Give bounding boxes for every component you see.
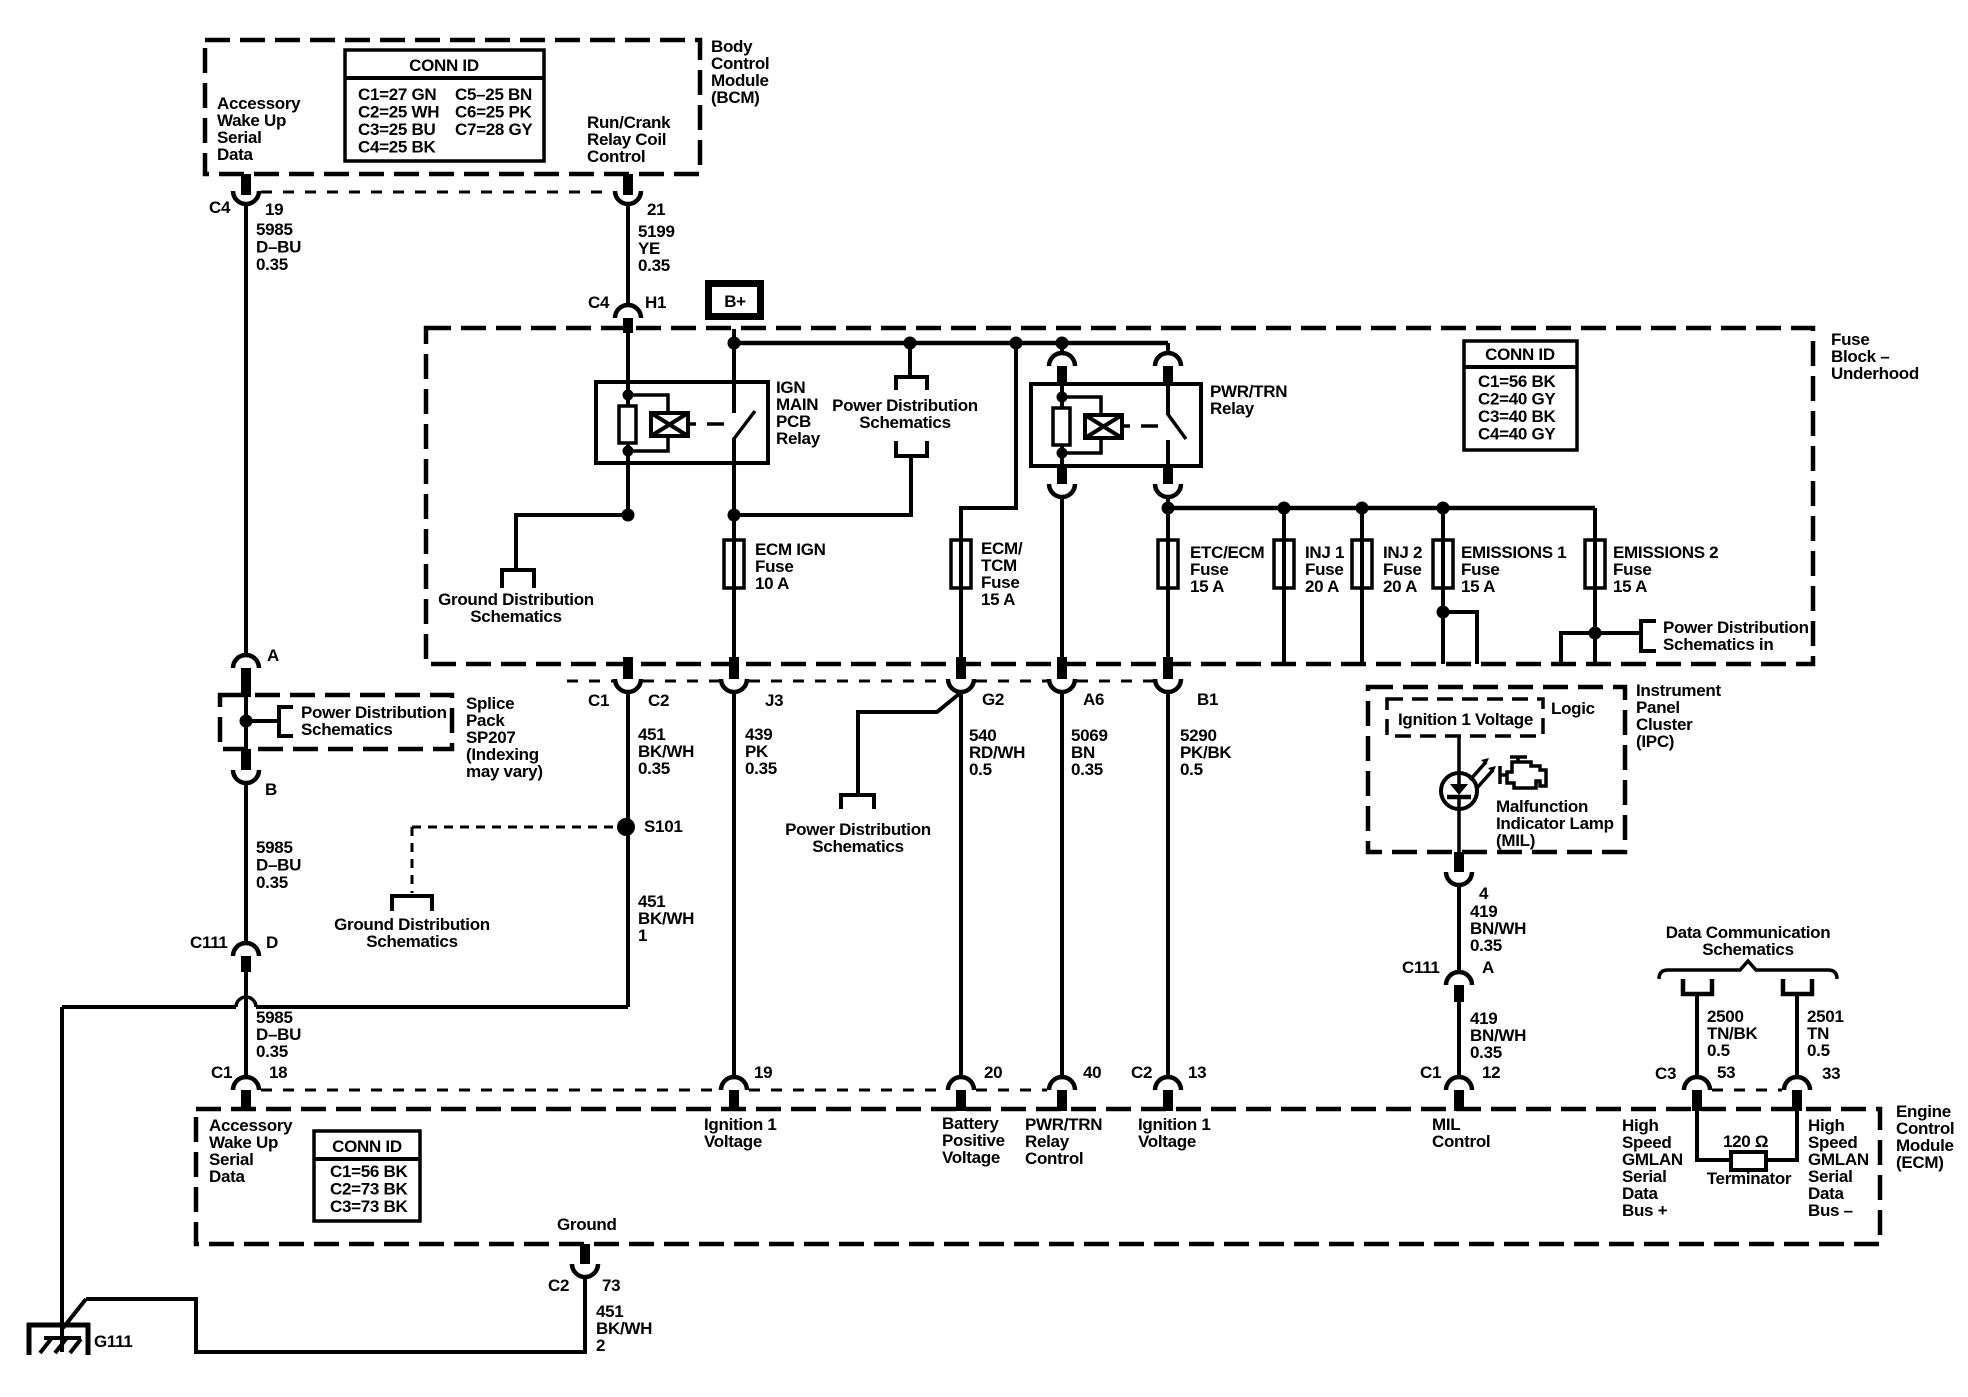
wire power distribution to switch output [734, 456, 911, 515]
svg-text:0.35: 0.35 [745, 759, 777, 778]
junction dot switch output [728, 509, 741, 522]
svg-text:C111: C111 [1402, 958, 1440, 977]
MIL indicator light arrows [1470, 762, 1486, 780]
svg-text:C1=56 BK: C1=56 BK [1478, 372, 1556, 391]
fuse F7 EMISSIONS 2 Fuse 15 A [1593, 508, 1597, 664]
PWR/TRN coil pin connector top [1060, 343, 1064, 355]
wire 5985 D-BU from B to C111 D [244, 783, 248, 943]
PWR/TRN relay switch output wire [1166, 440, 1170, 466]
svg-text:CONN ID: CONN ID [1485, 345, 1555, 364]
wire 451 BK/WH 2 from ECM to G111 [86, 1277, 585, 1352]
IGN relay coil wire through [626, 384, 630, 463]
junction dot bus to PWR/TRN relay coil [1056, 337, 1069, 350]
connector C1/C2 at fuse block bottom [623, 657, 633, 679]
svg-text:may vary): may vary) [466, 762, 543, 781]
PWR/TRN switch bottom pin connector [1163, 466, 1173, 484]
svg-text:Underhood: Underhood [1831, 364, 1919, 383]
wire 5069 BN from A6 to ECM pin 40 [1060, 692, 1064, 1078]
svg-text:B: B [265, 780, 277, 799]
svg-text:40: 40 [1083, 1063, 1101, 1082]
svg-text:Voltage: Voltage [942, 1148, 1000, 1167]
svg-text:15 A: 15 A [1461, 577, 1495, 596]
svg-text:10 A: 10 A [755, 574, 789, 593]
connector B below splice pack [241, 749, 251, 770]
svg-text:C6=25 PK: C6=25 PK [455, 103, 533, 122]
junction dot INJ 1 fuse feed [1278, 502, 1291, 515]
splice pack SP207 dashed box [220, 695, 452, 749]
svg-text:0.5: 0.5 [1807, 1041, 1830, 1060]
wire to power distribution pointer (splice pack) [246, 719, 279, 723]
connector B1 at fuse block bottom [1163, 657, 1173, 679]
wire 451 BK/WH 1 from S101 to G111 ground [256, 1005, 628, 1009]
svg-text:A: A [267, 646, 279, 665]
Fuse Block - Underhood module box [426, 328, 1813, 664]
wire 5290 PK/BK from B1 to ECM C2/13 [1166, 692, 1170, 1078]
B+ bus wire across fuse block [733, 341, 1168, 346]
svg-text:19: 19 [265, 200, 283, 219]
svg-text:1: 1 [638, 926, 647, 945]
ground G111 symbol [27, 1323, 90, 1328]
svg-text:D–BU: D–BU [256, 856, 301, 875]
connector below IPC for MIL wire [1454, 852, 1464, 872]
svg-text:D: D [266, 933, 278, 952]
GMLAN bus - pointer bracket [1783, 979, 1812, 994]
svg-text:H1: H1 [645, 293, 666, 312]
svg-text:5985: 5985 [256, 838, 293, 857]
EMISSIONS 2 output branch wire to pointer [1595, 631, 1641, 635]
fuse F2 ECM/TCM Fuse 15 A [959, 508, 963, 657]
svg-text:120 Ω: 120 Ω [1723, 1132, 1768, 1151]
svg-text:0.35: 0.35 [256, 873, 288, 892]
PWR/TRN relay coil bottom node [1057, 448, 1068, 459]
terminator resistor 120 ohm inside ECM [1697, 1111, 1731, 1160]
svg-text:C2=40 GY: C2=40 GY [1478, 390, 1556, 409]
wire ignition 1 voltage to MIL lamp [1457, 736, 1461, 852]
svg-text:15 A: 15 A [981, 590, 1015, 609]
junction dot splice pack [240, 715, 253, 728]
power distribution pointer bracket (540 branch) [841, 795, 874, 809]
svg-text:Schematics: Schematics [812, 837, 904, 856]
connector G2 at fuse block bottom [956, 657, 966, 679]
crossover hop of ground wire under serial data wire [236, 997, 256, 1007]
junction dot EMISSIONS 1 output split [1437, 606, 1450, 619]
junction dot INJ 2 fuse feed [1356, 502, 1369, 515]
svg-text:0.35: 0.35 [1071, 760, 1103, 779]
svg-text:Schematics: Schematics [366, 932, 458, 951]
relay U2 PWR/TRN Relay box [1031, 384, 1201, 466]
svg-text:(MIL): (MIL) [1496, 831, 1535, 850]
fuse block CONN ID table [1464, 341, 1577, 450]
IGN relay solenoid box with X [651, 413, 688, 436]
svg-text:Schematics: Schematics [470, 607, 562, 626]
svg-text:Logic: Logic [1551, 699, 1595, 718]
svg-text:D–BU: D–BU [256, 238, 301, 257]
svg-text:Ground: Ground [557, 1215, 617, 1234]
wire to ground distribution schematics [516, 515, 628, 568]
wire power distribution schematics up-link [908, 343, 912, 376]
ground distribution pointer bracket [502, 570, 534, 588]
svg-text:Bus –: Bus – [1808, 1201, 1853, 1220]
svg-text:20 A: 20 A [1383, 577, 1417, 596]
fuse F6 EMISSIONS 1 Fuse 15 A [1441, 508, 1445, 664]
IGN relay switch wire from bus [732, 343, 736, 413]
svg-text:5985: 5985 [256, 220, 293, 239]
junction dot fused bus [1162, 502, 1175, 515]
fuse block bottom connector fine-dashed line [567, 680, 613, 683]
wire 419 BN/WH from IPC to C111 A [1457, 885, 1461, 972]
wire inside splice pack [244, 695, 248, 749]
wire 540 RD/WH branch to power distribution [858, 694, 959, 794]
connector C2 pin 73 at ECM bottom [580, 1244, 590, 1264]
svg-text:12: 12 [1482, 1063, 1500, 1082]
IGN relay coil bottom node [623, 446, 634, 457]
svg-text:C2=25 WH: C2=25 WH [358, 103, 439, 122]
MIL check engine icon [1507, 762, 1546, 788]
svg-text:15 A: 15 A [1190, 577, 1224, 596]
BCM module box (Body Control Module) [205, 40, 700, 174]
svg-text:G2: G2 [982, 690, 1004, 709]
svg-text:B+: B+ [724, 292, 746, 311]
PWR/TRN relay coil resistor [1053, 408, 1070, 445]
svg-text:4: 4 [1479, 884, 1489, 903]
svg-text:C1=56 BK: C1=56 BK [330, 1162, 408, 1181]
svg-text:Schematics: Schematics [301, 720, 393, 739]
EMISSIONS 2 output branch wire left [1561, 633, 1595, 664]
wire 5199 YE from BCM pin 21 down [626, 203, 630, 305]
connector J3 at fuse block bottom [729, 657, 739, 679]
EMISSIONS 1 output branch wire [1443, 612, 1477, 664]
svg-text:C4: C4 [209, 198, 231, 217]
IPC module box (Instrument Panel Cluster) [1368, 687, 1625, 852]
svg-text:C2: C2 [548, 1276, 569, 1295]
svg-text:C7=28 GY: C7=28 GY [455, 120, 533, 139]
svg-text:18: 18 [269, 1063, 287, 1082]
PWR/TRN switch pin connector top [1166, 343, 1170, 355]
svg-text:C5–25 BN: C5–25 BN [455, 85, 532, 104]
svg-text:C4=25 BK: C4=25 BK [358, 138, 436, 157]
svg-text:0.35: 0.35 [638, 256, 670, 275]
PWR/TRN relay switch wire [1166, 384, 1170, 415]
wire 540 RD/WH from G2 to ECM pin 20 [959, 692, 963, 1078]
svg-text:A: A [1482, 958, 1494, 977]
svg-text:0.5: 0.5 [1707, 1041, 1730, 1060]
svg-text:C3=73 BK: C3=73 BK [330, 1197, 408, 1216]
ECM top connector fine-dashed line [261, 1089, 719, 1092]
svg-text:Voltage: Voltage [704, 1132, 762, 1151]
svg-text:C3=40 BK: C3=40 BK [1478, 407, 1556, 426]
IGN relay switch arm [733, 411, 755, 440]
svg-text:C1: C1 [1420, 1063, 1441, 1082]
connector C4 pin 19 at BCM (stub and arc) [241, 174, 251, 195]
wire feed to ECM/TCM fuse [961, 343, 1016, 540]
svg-text:G111: G111 [94, 1332, 133, 1351]
junction dot EMISSIONS 1 fuse feed [1437, 502, 1450, 515]
svg-text:2: 2 [596, 1336, 605, 1355]
svg-text:0.35: 0.35 [256, 255, 288, 274]
connector C4 pin 21 at BCM (stub and arc) [623, 174, 633, 195]
IGN relay coil loop wire [628, 395, 668, 414]
junction dot bus to power distribution [904, 337, 917, 350]
svg-text:0.5: 0.5 [969, 760, 992, 779]
dashed wire from S101 to ground distribution [412, 826, 613, 829]
svg-text:C1=27 GN: C1=27 GN [358, 85, 436, 104]
svg-text:0.35: 0.35 [638, 759, 670, 778]
ECM CONN ID table [314, 1131, 420, 1221]
PWR/TRN relay coil wire through [1060, 386, 1064, 466]
svg-text:15 A: 15 A [1613, 577, 1647, 596]
svg-text:Data: Data [209, 1167, 245, 1186]
svg-text:C3: C3 [1655, 1064, 1676, 1083]
BCM CONN ID table [345, 50, 544, 161]
svg-text:Relay: Relay [1210, 399, 1255, 418]
svg-text:A6: A6 [1083, 690, 1104, 709]
svg-text:73: 73 [602, 1276, 620, 1295]
wire from H1 into IGN MAIN relay coil [626, 331, 630, 384]
ECM module box (Engine Control Module) [196, 1109, 1880, 1244]
svg-text:C1: C1 [211, 1063, 232, 1082]
svg-text:CONN ID: CONN ID [332, 1137, 402, 1156]
ground distribution pointer bracket (S101) [392, 896, 432, 911]
IGN relay switch output wire [732, 438, 736, 463]
svg-text:Control: Control [1432, 1132, 1490, 1151]
svg-text:0.5: 0.5 [1180, 760, 1203, 779]
svg-text:Control: Control [1025, 1149, 1083, 1168]
svg-text:C2=73 BK: C2=73 BK [330, 1180, 408, 1199]
svg-text:Voltage: Voltage [1138, 1132, 1196, 1151]
PWR/TRN relay switch arm [1167, 413, 1186, 439]
svg-text:B1: B1 [1197, 690, 1218, 709]
svg-text:53: 53 [1717, 1063, 1735, 1082]
IGN relay mechanical link dashes [688, 422, 696, 426]
PWR/TRN relay coil top node [1057, 392, 1068, 403]
wire 2501 TN GMLAN bus - [1795, 994, 1799, 1078]
fuse F4 INJ 1 Fuse 20 A [1282, 508, 1286, 664]
wire 5985 D-BU from C111 to ECM C1/18 [244, 972, 248, 1078]
svg-text:21: 21 [647, 200, 665, 219]
wire 419 BN/WH from C111 to ECM C1/12 [1457, 1002, 1461, 1078]
IGN relay coil top node [623, 390, 634, 401]
wire from B+ down to bus [732, 329, 736, 343]
svg-text:Bus +: Bus + [1622, 1201, 1668, 1220]
fuse F3 ETC/ECM Fuse 15 A [1166, 508, 1170, 657]
wire switch output to ECM IGN fuse and power distribution [732, 438, 736, 515]
svg-text:J3: J3 [765, 691, 783, 710]
svg-text:Ignition 1 Voltage: Ignition 1 Voltage [1398, 710, 1533, 729]
svg-text:C4: C4 [588, 293, 610, 312]
wire 5985 D-BU from BCM C4/19 down [244, 203, 248, 655]
svg-text:0.35: 0.35 [256, 1042, 288, 1061]
junction dot bus to ECM/TCM fuse feed [1010, 337, 1023, 350]
brace for data communication schematics [1659, 961, 1837, 979]
power distribution pointer bracket bottom [896, 441, 927, 456]
svg-text:S101: S101 [644, 817, 683, 836]
fuse F1 ECM IGN Fuse 10 A [732, 515, 736, 657]
svg-text:33: 33 [1822, 1064, 1840, 1083]
svg-text:(ECM): (ECM) [1896, 1153, 1944, 1172]
svg-text:Schematics: Schematics [859, 413, 951, 432]
svg-text:Schematics in: Schematics in [1663, 635, 1773, 654]
svg-text:20: 20 [984, 1063, 1002, 1082]
svg-text:Control: Control [587, 147, 645, 166]
svg-text:C3=25 BU: C3=25 BU [358, 120, 435, 139]
wire IGN relay coil to ground distribution junction [626, 463, 630, 515]
IGN relay coil resistor [619, 406, 636, 443]
fused output bus wire [1168, 506, 1595, 511]
wire 2500 TN/BK GMLAN bus + [1695, 994, 1699, 1078]
svg-text:C2: C2 [648, 691, 669, 710]
Ignition 1 Voltage logic box [1387, 699, 1543, 736]
svg-text:C2: C2 [1131, 1063, 1152, 1082]
power distribution pointer bracket (splice pack) [279, 707, 293, 736]
power distribution pointer bracket top [896, 377, 927, 390]
svg-text:0.35: 0.35 [1470, 1043, 1502, 1062]
connector A6 at fuse block bottom [1057, 657, 1067, 679]
PWR/TRN relay coil loop wire [1062, 397, 1101, 416]
svg-text:13: 13 [1188, 1063, 1206, 1082]
svg-text:(BCM): (BCM) [711, 88, 760, 107]
svg-text:C111: C111 [190, 933, 228, 952]
svg-text:19: 19 [754, 1063, 772, 1082]
svg-text:Relay: Relay [776, 429, 821, 448]
wire 451 BK/WH from C2 to S101 [626, 692, 630, 1007]
GMLAN bus + pointer bracket [1683, 979, 1712, 994]
svg-text:0.35: 0.35 [1470, 936, 1502, 955]
junction dot EMISSIONS 2 output split [1589, 627, 1602, 640]
wire switch output to fuse bus [1166, 497, 1170, 540]
wire 439 PK from J3 to ECM pin 19 [732, 692, 736, 1078]
B+ battery feed symbol [709, 284, 761, 317]
power distribution in pointer bracket [1641, 621, 1656, 651]
svg-text:Schematics: Schematics [1702, 940, 1794, 959]
BCM bottom connector fine-dashed line [261, 191, 613, 194]
svg-text:CONN ID: CONN ID [409, 56, 479, 75]
svg-text:Terminator: Terminator [1707, 1169, 1792, 1188]
svg-text:20 A: 20 A [1305, 577, 1339, 596]
svg-text:(IPC): (IPC) [1636, 732, 1674, 751]
junction dot coil ground [622, 509, 635, 522]
svg-text:C1: C1 [588, 691, 609, 710]
PWR/TRN relay mechanical link dashes [1122, 424, 1130, 428]
wire 5069 BN from coil to A6 [1060, 497, 1064, 657]
relay U1 IGN MAIN PCB Relay box [596, 382, 768, 463]
svg-text:C4=40 GY: C4=40 GY [1478, 425, 1556, 444]
junction dot B+ at bus [728, 337, 741, 350]
lamp MIL LED symbol [1441, 773, 1477, 809]
PWR/TRN relay solenoid box with X [1085, 415, 1122, 438]
PWR/TRN coil bottom pin connector [1057, 466, 1067, 484]
splice S101 [617, 818, 635, 836]
fuse F5 INJ 2 Fuse 20 A [1360, 508, 1364, 664]
svg-text:Data: Data [217, 145, 253, 164]
